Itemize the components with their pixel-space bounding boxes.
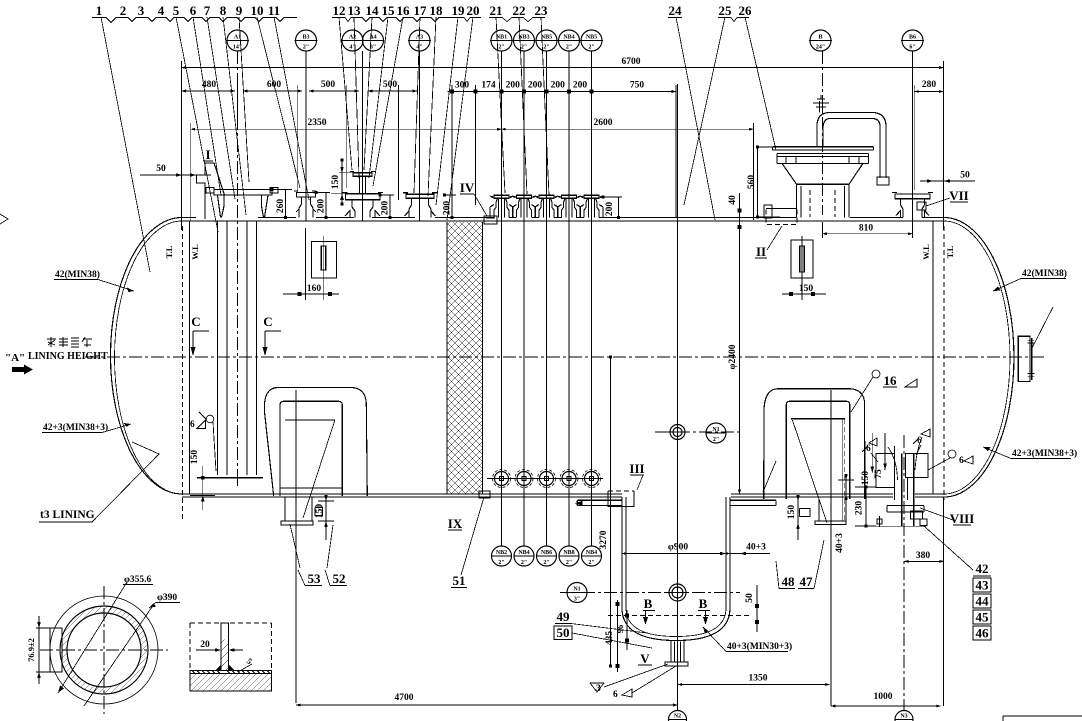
left reinforcement pad with slot — [312, 242, 337, 279]
dim 200 nozzle A3 — [445, 195, 457, 218]
svg-text:C: C — [263, 314, 272, 329]
small left edge triangle — [0, 214, 8, 224]
svg-text:4: 4 — [158, 3, 165, 18]
dim 4700 — [296, 704, 677, 706]
extension line 297 — [297, 85, 299, 192]
svg-text:6": 6" — [909, 45, 915, 51]
svg-text:76.9±2: 76.9±2 — [26, 638, 36, 662]
svg-text:44: 44 — [976, 594, 990, 609]
right head inner — [944, 221, 1010, 494]
nozzle B3 2in flange — [294, 191, 316, 197]
svg-text:12: 12 — [333, 3, 346, 18]
nozzle III flush pad — [608, 490, 634, 492]
davit lifting screw — [813, 95, 829, 113]
right saddle inner vertical pair — [841, 419, 843, 521]
svg-text:160: 160 — [307, 284, 322, 294]
svg-text:20: 20 — [467, 3, 480, 18]
sump dished bottom outer — [622, 608, 730, 641]
svg-text:40+3: 40+3 — [835, 533, 845, 553]
svg-text:50: 50 — [960, 171, 970, 181]
drain nozzle VIII left bolt mark — [877, 516, 882, 527]
svg-text:8: 8 — [220, 3, 227, 18]
svg-text:260: 260 — [276, 199, 286, 214]
svg-text:300: 300 — [455, 81, 470, 91]
zigzag underline 1-11 — [92, 18, 297, 23]
svg-text:6: 6 — [917, 436, 922, 446]
balloon NB4b — [514, 546, 534, 566]
svg-text:40+3(MIN30+3): 40+3(MIN30+3) — [727, 641, 792, 652]
nozzle B3 centerline — [305, 51, 308, 300]
nozzle A2 riser stem — [360, 176, 366, 193]
leader from 16t — [373, 17, 403, 186]
leader from 11 — [274, 17, 309, 200]
vessel shell top line inner lining — [182, 220, 944, 222]
dim 200 e — [547, 91, 570, 93]
svg-text:40: 40 — [728, 195, 738, 205]
dim 150 under right pad — [782, 293, 826, 295]
svg-text:2": 2" — [588, 560, 594, 566]
dim 500a — [309, 90, 359, 92]
svg-text:47: 47 — [800, 574, 814, 589]
balloon B3 2in — [295, 30, 318, 51]
sump B-B cutting plane dashes — [608, 615, 750, 617]
svg-text:42+3(MIN38+3): 42+3(MIN38+3) — [1012, 448, 1077, 459]
drain nozzle VIII flange — [887, 506, 924, 513]
dim 200 five nozzles — [603, 197, 622, 218]
leader from 14 — [364, 17, 372, 170]
mesh bottom support box detail IX — [479, 491, 490, 498]
drain nozzle VIII left block plate — [876, 454, 895, 488]
title block corner — [1003, 716, 1082, 721]
svg-text:50: 50 — [745, 593, 755, 603]
svg-text:N2: N2 — [674, 714, 681, 720]
svg-text:4": 4" — [349, 45, 355, 51]
svg-text:810: 810 — [859, 224, 874, 234]
leader from 8 — [223, 17, 246, 215]
svg-text:45: 45 — [976, 610, 990, 625]
balloon N1 sump — [567, 583, 587, 603]
leader from 25 — [684, 17, 725, 205]
svg-text:6: 6 — [613, 690, 618, 700]
svg-text:NB8: NB8 — [563, 550, 574, 556]
drain nozzle VIII curved weld leaders — [888, 447, 898, 480]
svg-text:200: 200 — [551, 81, 566, 91]
drain nozzle VIII bottom line — [865, 525, 926, 527]
svg-text:1: 1 — [96, 3, 103, 18]
svg-text:NB2: NB2 — [496, 550, 507, 556]
svg-text:φ900: φ900 — [668, 543, 688, 553]
dim 40+3 mesh bottom left — [845, 476, 847, 514]
davit socket — [877, 177, 889, 185]
manway nozzle I tower top left — [197, 163, 225, 219]
dim 96 sump bottom — [626, 610, 628, 650]
manway B 24in cover plates — [773, 147, 874, 150]
leader from 1 to head — [101, 17, 150, 272]
dim 200 nozzle A2 — [380, 195, 394, 218]
small nozzle centerlines down to spray pipes — [502, 51, 592, 546]
manway hidden bore dashes — [810, 190, 835, 217]
right saddle base — [800, 499, 847, 525]
sump horizontal chain line — [560, 592, 740, 594]
vessel shell top line outer — [182, 217, 944, 219]
nozzle A2 neck — [345, 200, 380, 218]
svg-text:V: V — [640, 651, 650, 666]
balloon NB2 — [513, 30, 536, 51]
dim 6700 line — [182, 67, 944, 69]
manway centerline — [822, 51, 824, 215]
drain nozzle VIII centerline — [903, 435, 905, 710]
dim 174 — [476, 91, 502, 93]
dim 435 sump bottom — [617, 600, 619, 672]
nozzle A1 neck trapezoid — [218, 195, 269, 218]
svg-text:II: II — [756, 244, 766, 259]
svg-text:20: 20 — [200, 640, 210, 650]
svg-text:W.L: W.L — [921, 244, 931, 260]
right head axial nozzle — [1018, 336, 1031, 381]
svg-text:I: I — [205, 147, 210, 162]
manway cone neck — [782, 163, 863, 217]
balloon NB10b — [582, 546, 602, 566]
svg-text:43: 43 — [976, 578, 990, 593]
svg-text:52: 52 — [333, 571, 346, 586]
weld flag 16 at right saddle — [872, 370, 880, 378]
leader from 6 — [193, 17, 221, 195]
extension line 753 2600 end — [752, 123, 754, 220]
dim 260 nozzle A1 — [272, 190, 292, 218]
svg-text:1000: 1000 — [874, 692, 893, 702]
leader from 23 — [541, 17, 549, 195]
svg-text:50: 50 — [557, 625, 570, 640]
left head outer — [111, 218, 183, 495]
weld flag 6c at drain right — [948, 450, 956, 458]
svg-text:B6: B6 — [909, 35, 916, 41]
right weld line W.L solid — [932, 221, 934, 494]
svg-text:NB6: NB6 — [541, 550, 552, 556]
zigzag underline 12-18 — [332, 18, 451, 22]
dim 160 under left pad — [283, 293, 339, 295]
vortex breaker plate under standpipe — [197, 477, 263, 479]
svg-text:6: 6 — [190, 3, 197, 18]
dim 3270 sump depth — [610, 357, 612, 666]
svg-text:φ355.6: φ355.6 — [124, 575, 152, 585]
dim 280 — [914, 91, 943, 93]
svg-text:380: 380 — [916, 551, 931, 561]
vessel shell bottom line inner lining — [182, 496, 944, 498]
svg-text:435: 435 — [605, 631, 615, 646]
svg-text:3: 3 — [596, 684, 601, 694]
svg-text:W.L: W.L — [190, 244, 200, 260]
svg-text:NB3: NB3 — [518, 35, 529, 41]
nozzle B6 centerline — [912, 51, 914, 221]
svg-text:150: 150 — [315, 504, 325, 519]
svg-text:6: 6 — [866, 444, 871, 454]
detail ring outer circle — [50, 596, 158, 704]
nozzle B6 neck — [896, 199, 929, 218]
dim 40+3 sump wall — [730, 553, 770, 555]
svg-text:18: 18 — [430, 3, 444, 18]
nozzle A1 flange — [206, 188, 278, 196]
svg-text:B: B — [644, 596, 653, 611]
svg-text:3": 3" — [574, 597, 580, 603]
dim 200 f — [569, 91, 592, 93]
left saddle web — [280, 401, 342, 496]
svg-text:φ390: φ390 — [157, 593, 177, 603]
svg-text:200: 200 — [317, 199, 327, 214]
dim 200 nozzle B3 — [316, 193, 330, 218]
right saddle centerline — [830, 390, 832, 706]
svg-text:NB4: NB4 — [518, 550, 529, 556]
dim 50 sump right — [756, 585, 758, 632]
svg-text:19: 19 — [452, 3, 466, 18]
weld detail fillet welds — [215, 665, 235, 671]
balloon NB8b — [559, 546, 579, 566]
leader from 15 — [369, 17, 388, 178]
extension line 346 — [345, 85, 347, 188]
svg-text:N1: N1 — [573, 587, 580, 593]
weld detail lining strip — [190, 671, 272, 674]
drain nozzle VIII pipe walls — [895, 446, 914, 526]
svg-text:200: 200 — [506, 81, 521, 91]
svg-text:2350: 2350 — [308, 118, 327, 128]
svg-text:2": 2" — [713, 437, 719, 443]
svg-text:42+3(MIN38+3): 42+3(MIN38+3) — [43, 422, 108, 433]
dim 150 nozzle A2 riser — [331, 160, 353, 204]
davit mast and arm pipe — [817, 113, 886, 179]
sump boot left wall — [622, 497, 626, 608]
vessel horizontal centerline — [85, 356, 1046, 358]
balloon bottom drain cut — [895, 711, 913, 721]
right saddle wear plate — [764, 389, 865, 499]
balloon A1 14in — [226, 30, 249, 51]
balloon NB5 — [580, 30, 603, 51]
svg-text:200: 200 — [528, 81, 543, 91]
svg-text:T.L: T.L — [945, 245, 955, 258]
svg-text:24": 24" — [816, 45, 825, 51]
svg-text:150: 150 — [799, 284, 814, 294]
svg-text:2: 2 — [120, 3, 127, 18]
extension line 398 — [398, 85, 400, 200]
leader from 26 — [745, 17, 776, 150]
svg-text:500: 500 — [321, 80, 336, 90]
svg-text:NB4: NB4 — [586, 550, 597, 556]
svg-text:NB4: NB4 — [563, 35, 574, 41]
nozzle B6 6in flange — [892, 193, 933, 199]
right saddle gusset diagonal — [792, 420, 827, 523]
weld flag 6 at standpipe — [206, 415, 214, 423]
svg-text:40+3: 40+3 — [746, 543, 766, 553]
svg-text:1350: 1350 — [749, 674, 768, 684]
svg-text:2": 2" — [521, 45, 527, 51]
nozzle A2 main flange — [343, 193, 384, 200]
svg-text:B3: B3 — [302, 35, 309, 41]
leader from 9 — [239, 17, 249, 182]
svg-text:N1: N1 — [712, 427, 719, 433]
svg-text:49: 49 — [557, 609, 571, 624]
svg-text:150: 150 — [861, 471, 871, 486]
svg-text:200: 200 — [573, 81, 588, 91]
left head inner — [114, 221, 182, 494]
extension line 493 — [475, 85, 477, 205]
right tangent line T.L dashed — [943, 226, 945, 500]
weld detail base slab hatched — [190, 674, 272, 692]
label lining height chinese — [47, 337, 92, 347]
dim 200 d — [524, 91, 547, 93]
svg-text:22: 22 — [513, 3, 526, 18]
svg-text:42(MIN38): 42(MIN38) — [55, 269, 100, 280]
leader from 42 stack to drain — [924, 526, 973, 570]
extension line 443 — [451, 85, 453, 217]
dim 150 left standpipe vortex — [202, 466, 204, 510]
svg-text:11: 11 — [268, 3, 280, 18]
balloon bottom sump cut — [669, 711, 687, 721]
svg-text:4": 4" — [416, 45, 422, 51]
leader from 22 — [519, 17, 527, 194]
svg-text:750: 750 — [630, 81, 645, 91]
svg-text:3270: 3270 — [599, 530, 609, 549]
svg-text:3: 3 — [138, 3, 145, 18]
leader from 13 — [354, 17, 359, 178]
dim 150 drain — [871, 433, 873, 473]
detail ring diagonal 355.6 — [58, 582, 127, 693]
svg-text:14: 14 — [366, 3, 380, 18]
leader from 19 — [436, 17, 458, 205]
svg-text:A1: A1 — [234, 35, 241, 41]
five small nozzles NB1-NB5 — [489, 195, 514, 217]
svg-text:C: C — [191, 314, 200, 329]
svg-text:15: 15 — [382, 3, 396, 18]
leader from 17 — [414, 17, 420, 193]
sump dished bottom inner lining — [626, 608, 726, 637]
nozzle A1 centerline — [237, 51, 239, 480]
extension line 676 — [675, 85, 677, 217]
manway flange — [777, 154, 869, 164]
svg-text:2": 2" — [566, 560, 572, 566]
dim 500b — [368, 90, 417, 92]
right saddle web — [786, 401, 850, 499]
svg-text:t3 LINING: t3 LINING — [40, 509, 95, 521]
svg-text:200: 200 — [381, 201, 391, 216]
svg-text:B: B — [818, 35, 822, 41]
svg-text:2": 2" — [498, 560, 504, 566]
svg-text:A2: A2 — [349, 35, 356, 41]
demister mesh pad column crosshatched — [447, 222, 483, 494]
svg-text:17: 17 — [414, 3, 428, 18]
svg-text:IV: IV — [460, 180, 475, 195]
weld detail anchor bar — [221, 623, 229, 671]
left saddle base — [281, 497, 323, 525]
nozzle A3 centerline — [419, 51, 421, 221]
mesh top support box detail IV — [484, 216, 497, 224]
nozzle B3 neck — [296, 197, 316, 218]
svg-text:150: 150 — [331, 175, 341, 190]
svg-text:NB5: NB5 — [586, 35, 597, 41]
svg-text:VII: VII — [949, 188, 969, 203]
dim 600 — [243, 90, 302, 92]
weld detail dim 20 — [196, 649, 243, 651]
dim 50 right VII — [920, 180, 975, 182]
svg-text:26: 26 — [739, 3, 753, 18]
svg-text:2": 2" — [566, 45, 572, 51]
zigzag underline 21-23 — [489, 18, 545, 22]
nozzle II flush dashed rectangle — [766, 209, 797, 225]
svg-text:150: 150 — [190, 450, 200, 465]
balloon A3 4in — [408, 30, 431, 51]
svg-text:16: 16 — [397, 3, 411, 18]
balloon B manway 24in — [809, 30, 832, 51]
left saddle gusset diagonal — [303, 420, 335, 518]
left saddle centerline — [295, 390, 297, 703]
svg-text:53: 53 — [308, 571, 322, 586]
balloon NB3 — [535, 30, 558, 51]
svg-text:NB5: NB5 — [541, 35, 552, 41]
leader 51 to IX box — [461, 497, 484, 575]
dim 75 drain — [884, 433, 886, 470]
drain nozzle VIII right block plate — [906, 454, 929, 478]
dim phi2400 — [739, 240, 741, 494]
svg-text:2": 2" — [498, 45, 504, 51]
sump centerline — [677, 470, 679, 712]
spray header horizontal line — [487, 478, 603, 480]
leader from 5 to nozzle I — [176, 17, 218, 232]
extension line right TL — [943, 61, 945, 706]
leader from 24 — [676, 17, 715, 220]
right head outer — [944, 218, 1014, 498]
leader from 21 — [496, 17, 505, 193]
svg-text:200: 200 — [605, 202, 615, 217]
svg-text:50: 50 — [156, 164, 166, 174]
svg-text:A4: A4 — [369, 35, 376, 41]
dim 1350 — [678, 684, 830, 686]
nozzle A1 internal standpipe — [218, 221, 257, 475]
svg-text:42: 42 — [976, 561, 989, 576]
svg-text:7: 7 — [204, 3, 211, 18]
nozzle A3 flange — [403, 193, 437, 199]
svg-text:φ2400: φ2400 — [728, 344, 738, 369]
nozzle VII reinforcing pad — [917, 202, 926, 210]
left saddle wear plate — [264, 388, 367, 497]
zigzag underline 19-20 — [451, 18, 481, 22]
svg-text:N3: N3 — [900, 714, 907, 720]
svg-text:46: 46 — [976, 626, 990, 641]
balloon B6 6in — [901, 30, 924, 51]
svg-text:13: 13 — [348, 3, 362, 18]
svg-text:"A": "A" — [5, 352, 25, 364]
svg-text:LINING HEIGHT: LINING HEIGHT — [28, 351, 108, 362]
right reinforcement pad with slot — [791, 240, 813, 278]
svg-text:IX: IX — [448, 516, 463, 531]
nozzle A3 neck — [405, 198, 436, 217]
extension line W.L left — [190, 123, 192, 221]
dim 76.9 ring — [36, 616, 48, 684]
svg-text:III: III — [629, 461, 644, 476]
pipe centerline vertical at x677 — [677, 84, 679, 710]
balloon A2 4in — [341, 30, 364, 51]
nozzle A2 centerline — [362, 51, 364, 221]
svg-text:2": 2" — [543, 560, 549, 566]
left weld line W.L solid — [189, 221, 191, 494]
svg-text:25: 25 — [719, 3, 733, 18]
drain nozzle VIII pad squares — [911, 511, 928, 526]
dim 200 c — [502, 91, 525, 93]
svg-text:9: 9 — [236, 3, 243, 18]
dim 810 manway to B6 — [823, 233, 913, 235]
sump boot right wall — [726, 497, 730, 608]
vessel shell bottom line outer — [182, 493, 944, 495]
svg-text:560: 560 — [747, 175, 757, 190]
svg-text:2": 2" — [588, 45, 594, 51]
nozzle A2 riser top flange — [350, 172, 375, 177]
spray header end circles row — [493, 470, 511, 488]
